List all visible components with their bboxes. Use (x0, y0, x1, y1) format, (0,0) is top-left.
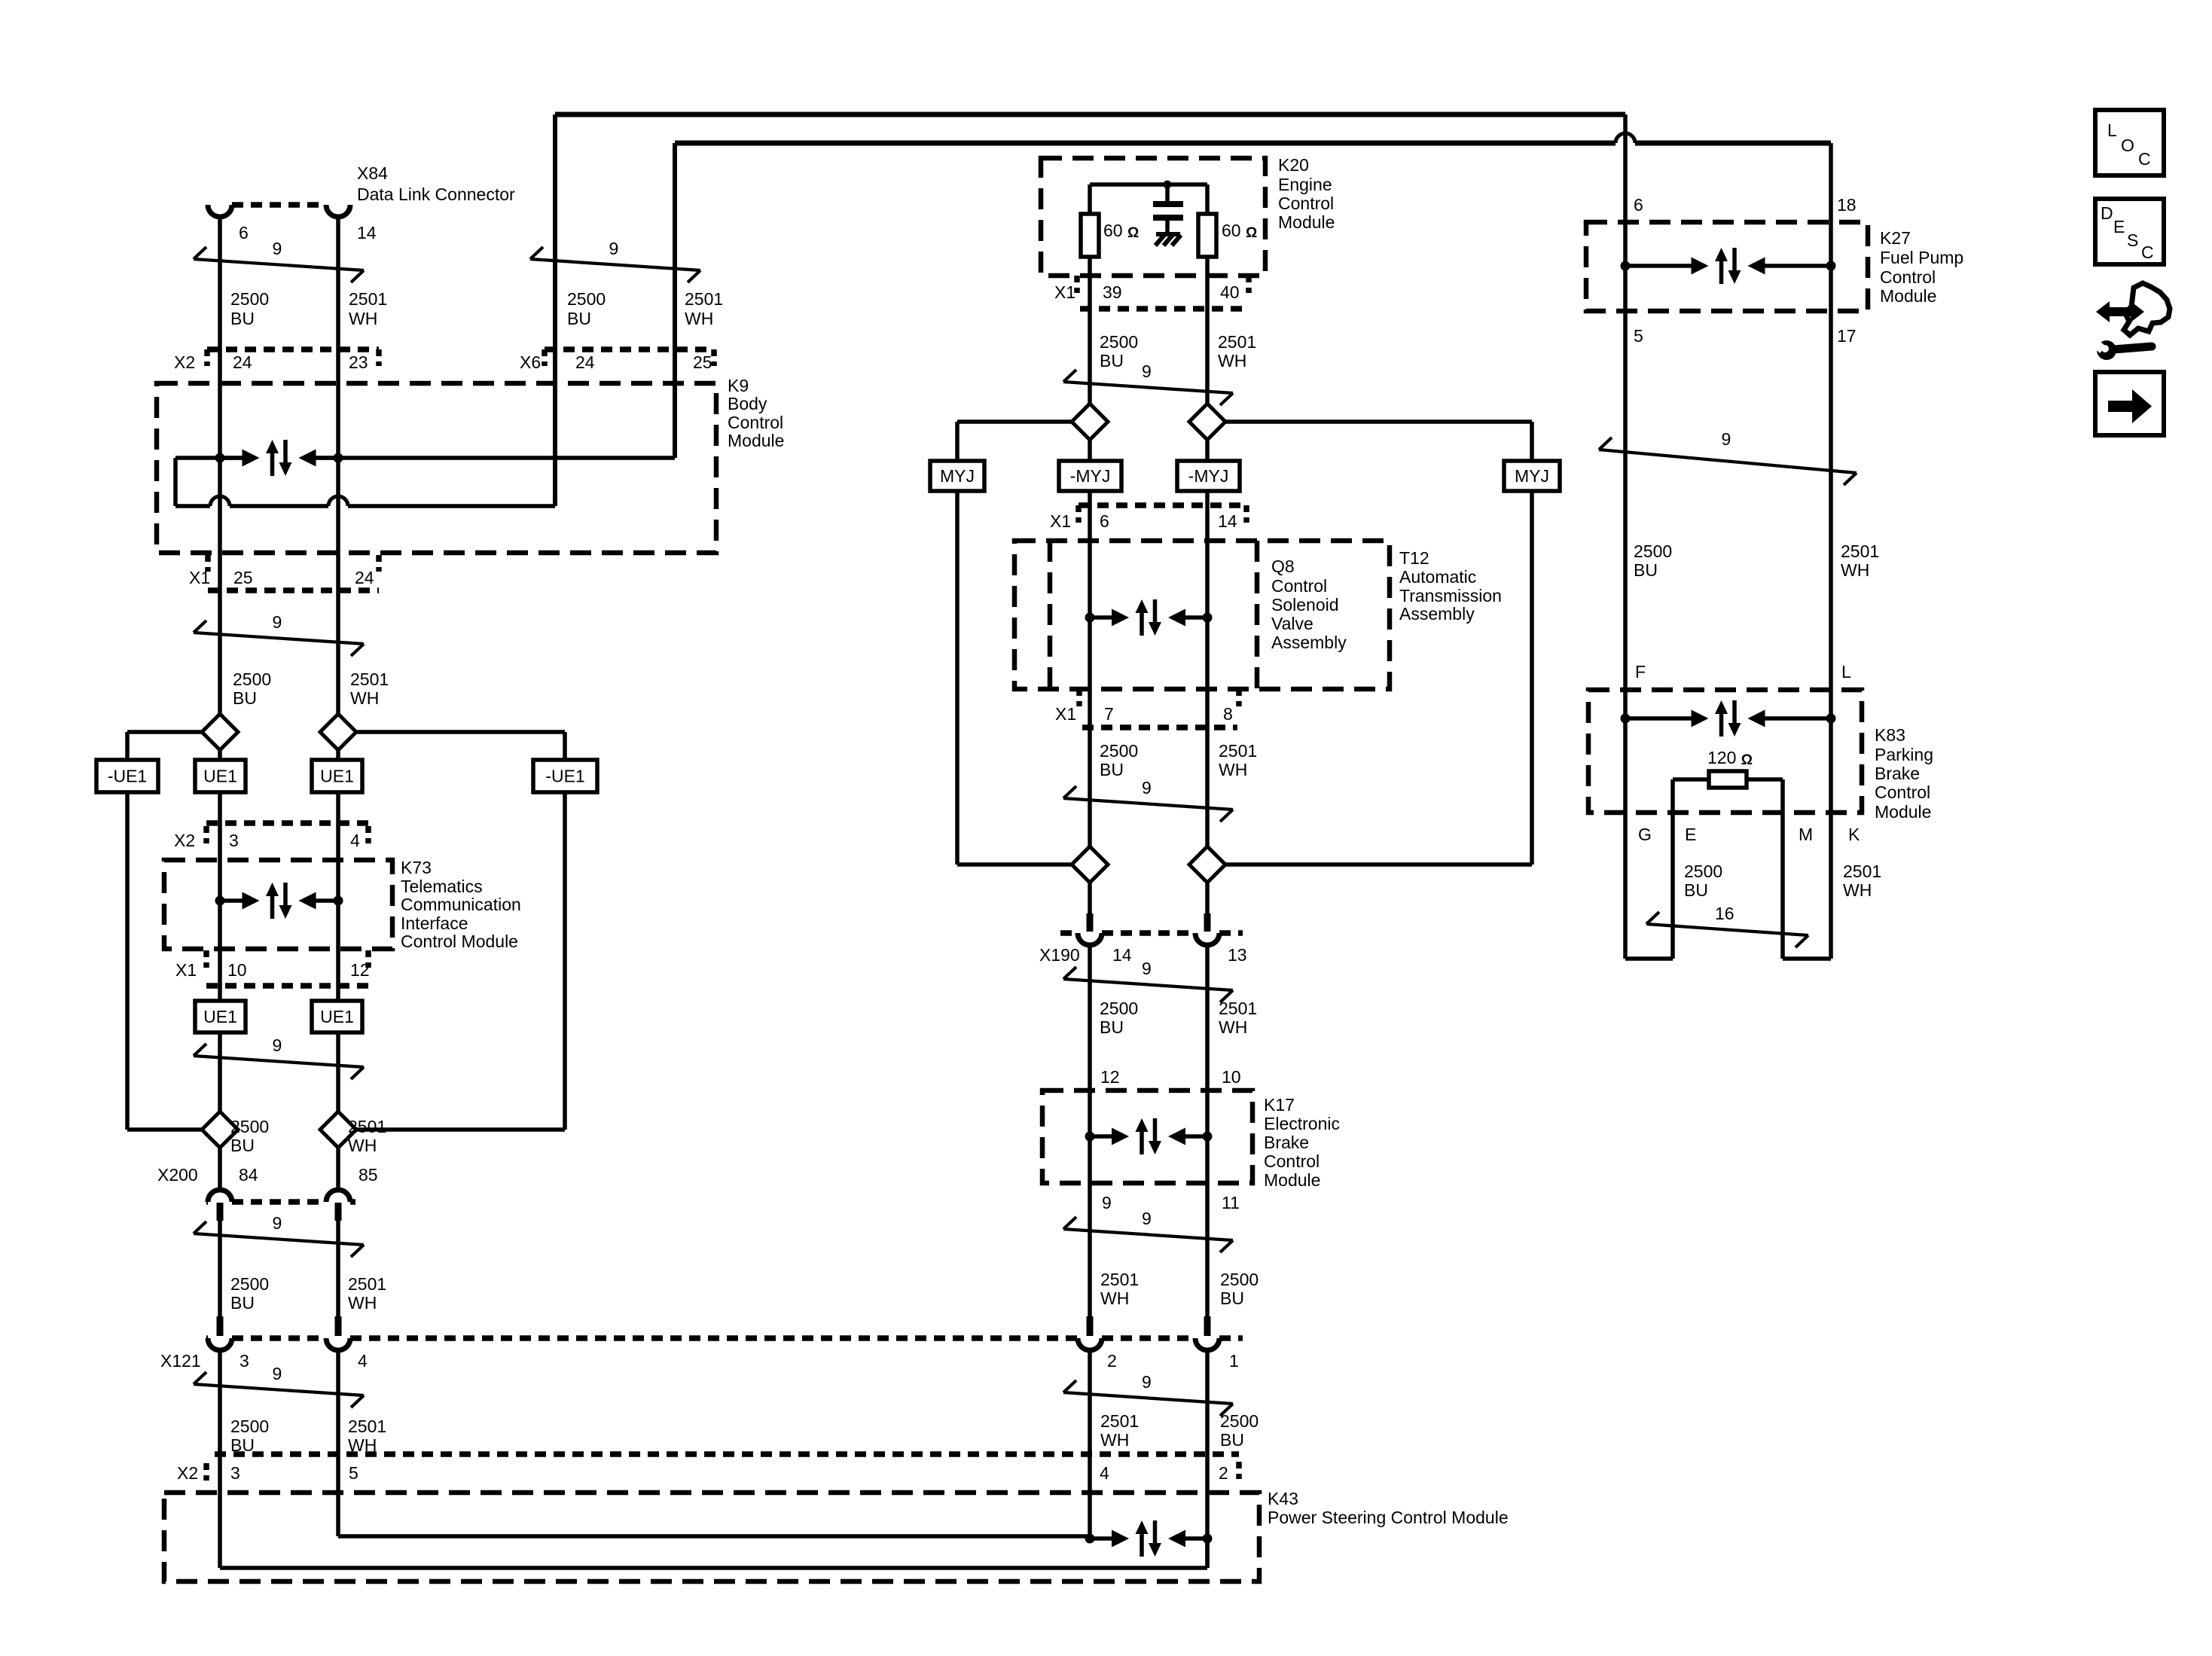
svg-text:X190: X190 (1039, 945, 1080, 965)
svg-text:Module: Module (1880, 286, 1936, 306)
svg-text:2501: 2501 (348, 1417, 386, 1436)
svg-text:4: 4 (350, 831, 360, 850)
svg-text:BU: BU (1100, 351, 1124, 371)
svg-text:WH: WH (1841, 560, 1869, 580)
svg-text:Q8: Q8 (1271, 557, 1295, 576)
svg-text:BU: BU (230, 1293, 255, 1313)
svg-text:X121: X121 (160, 1351, 201, 1371)
svg-text:Assembly: Assembly (1271, 633, 1347, 652)
svg-text:WH: WH (348, 1293, 377, 1313)
svg-text:2: 2 (1107, 1351, 1117, 1371)
svg-text:Control: Control (1264, 1151, 1320, 1171)
svg-text:9: 9 (1142, 1372, 1152, 1392)
svg-text:5: 5 (349, 1463, 358, 1483)
svg-text:Electronic: Electronic (1264, 1114, 1340, 1133)
svg-text:Valve: Valve (1271, 614, 1313, 633)
svg-text:24: 24 (233, 352, 252, 372)
svg-text:9: 9 (273, 612, 282, 632)
svg-text:X1: X1 (175, 960, 197, 980)
svg-text:9: 9 (1142, 1209, 1152, 1228)
svg-text:UE1: UE1 (203, 1007, 237, 1026)
svg-text:2501: 2501 (348, 1274, 386, 1294)
svg-text:BU: BU (1100, 1017, 1124, 1037)
svg-text:-UE1: -UE1 (545, 767, 584, 786)
svg-text:Body: Body (728, 394, 767, 413)
svg-text:O: O (2121, 136, 2134, 155)
svg-text:X2: X2 (177, 1463, 198, 1483)
svg-text:Interface: Interface (401, 913, 468, 933)
svg-text:2501: 2501 (1100, 1411, 1139, 1431)
svg-text:39: 39 (1103, 282, 1122, 302)
svg-text:UE1: UE1 (203, 767, 237, 786)
svg-text:40: 40 (1220, 282, 1240, 302)
svg-text:K20: K20 (1278, 155, 1309, 175)
svg-text:4: 4 (358, 1351, 368, 1371)
svg-text:10: 10 (1222, 1067, 1241, 1087)
svg-text:2501: 2501 (685, 289, 723, 309)
svg-text:Solenoid: Solenoid (1271, 595, 1339, 615)
svg-text:2500: 2500 (1100, 999, 1138, 1018)
svg-text:3: 3 (230, 1463, 240, 1483)
svg-text:84: 84 (239, 1165, 258, 1185)
svg-text:WH: WH (1219, 760, 1247, 779)
svg-text:2500: 2500 (230, 1274, 269, 1294)
svg-text:Power Steering Control Module: Power Steering Control Module (1268, 1508, 1509, 1527)
svg-text:16: 16 (1715, 904, 1735, 923)
svg-text:K73: K73 (401, 858, 432, 877)
svg-text:Control: Control (1875, 782, 1930, 802)
svg-text:D: D (2101, 203, 2113, 223)
svg-text:X1: X1 (1050, 511, 1071, 531)
svg-text:2501: 2501 (1843, 862, 1881, 881)
svg-text:WH: WH (685, 309, 713, 328)
svg-text:MYJ: MYJ (1515, 466, 1549, 486)
svg-text:2: 2 (1219, 1463, 1228, 1483)
svg-text:9: 9 (1102, 1193, 1112, 1212)
svg-text:Brake: Brake (1264, 1133, 1309, 1152)
svg-text:F: F (1635, 662, 1646, 682)
svg-text:9: 9 (1142, 778, 1152, 798)
svg-text:2501: 2501 (1841, 541, 1879, 561)
svg-text:9: 9 (1722, 429, 1731, 449)
svg-text:M: M (1799, 825, 1813, 844)
svg-text:24: 24 (575, 352, 595, 372)
svg-text:UE1: UE1 (320, 767, 354, 786)
svg-text:12: 12 (1100, 1067, 1120, 1087)
svg-text:WH: WH (348, 1136, 377, 1155)
svg-text:3: 3 (240, 1351, 249, 1371)
svg-text:Module: Module (1278, 212, 1335, 232)
svg-text:K9: K9 (728, 376, 749, 395)
svg-text:K83: K83 (1875, 725, 1905, 745)
svg-text:2500: 2500 (1100, 332, 1138, 352)
svg-text:X1: X1 (189, 568, 210, 587)
svg-text:K43: K43 (1268, 1489, 1298, 1508)
svg-text:14: 14 (357, 223, 377, 242)
svg-text:2501: 2501 (1219, 741, 1257, 761)
svg-text:6: 6 (1634, 195, 1643, 215)
svg-text:Control: Control (1880, 267, 1936, 287)
svg-text:-MYJ: -MYJ (1188, 466, 1229, 486)
svg-text:1: 1 (1229, 1351, 1239, 1371)
svg-text:2500: 2500 (1100, 741, 1138, 761)
svg-text:WH: WH (1843, 880, 1872, 900)
svg-text:5: 5 (1634, 326, 1643, 346)
svg-text:G: G (1638, 825, 1652, 844)
svg-text:2501: 2501 (1219, 999, 1257, 1018)
svg-text:Control: Control (1278, 194, 1334, 213)
svg-text:6: 6 (1100, 511, 1109, 531)
svg-text:Data Link Connector: Data Link Connector (357, 185, 515, 204)
svg-text:Module: Module (1264, 1170, 1320, 1190)
svg-text:7: 7 (1104, 704, 1114, 724)
svg-text:S: S (2127, 230, 2138, 250)
svg-text:Parking: Parking (1875, 745, 1933, 764)
svg-text:X6: X6 (520, 352, 541, 372)
svg-text:BU: BU (1684, 880, 1708, 900)
svg-text:2500: 2500 (567, 289, 606, 309)
svg-text:2501: 2501 (1218, 332, 1256, 352)
svg-text:2501: 2501 (348, 1117, 386, 1136)
svg-text:Fuel Pump: Fuel Pump (1880, 248, 1963, 267)
svg-text:UE1: UE1 (320, 1007, 354, 1026)
svg-text:-MYJ: -MYJ (1070, 466, 1111, 486)
svg-text:WH: WH (348, 1435, 377, 1455)
svg-text:K27: K27 (1880, 228, 1911, 248)
svg-text:2500: 2500 (230, 1117, 269, 1136)
svg-text:2500: 2500 (1220, 1270, 1259, 1289)
svg-text:X200: X200 (157, 1165, 198, 1185)
svg-text:BU: BU (1220, 1289, 1244, 1308)
svg-text:C: C (2141, 242, 2154, 262)
svg-text:9: 9 (273, 1213, 282, 1233)
svg-text:25: 25 (233, 568, 253, 587)
svg-text:BU: BU (1220, 1430, 1244, 1450)
svg-text:2500: 2500 (1684, 862, 1722, 881)
svg-text:8: 8 (1223, 704, 1233, 724)
svg-text:11: 11 (1222, 1193, 1240, 1212)
svg-text:WH: WH (1219, 1017, 1247, 1037)
svg-text:Control Module: Control Module (401, 932, 518, 951)
svg-text:WH: WH (350, 688, 379, 708)
svg-text:Telematics: Telematics (401, 877, 483, 896)
svg-text:2500: 2500 (1634, 541, 1672, 561)
svg-text:X2: X2 (174, 831, 195, 850)
svg-text:2500: 2500 (1220, 1411, 1259, 1431)
svg-text:2500: 2500 (230, 1417, 269, 1436)
svg-text:2501: 2501 (1100, 1270, 1139, 1289)
svg-text:E: E (2113, 217, 2125, 236)
svg-text:85: 85 (358, 1165, 378, 1185)
svg-text:WH: WH (1218, 351, 1246, 371)
svg-text:23: 23 (349, 352, 368, 372)
svg-text:9: 9 (609, 239, 619, 258)
svg-text:Communication: Communication (401, 895, 521, 914)
svg-text:BU: BU (230, 1136, 255, 1155)
svg-text:K17: K17 (1264, 1095, 1295, 1115)
svg-text:-UE1: -UE1 (108, 767, 147, 786)
svg-text:10: 10 (227, 960, 247, 980)
svg-text:X84: X84 (357, 163, 388, 183)
svg-text:13: 13 (1228, 945, 1247, 965)
svg-text:X1: X1 (1054, 282, 1075, 302)
svg-text:2501: 2501 (349, 289, 387, 309)
svg-text:4: 4 (1100, 1463, 1109, 1483)
svg-text:Assembly: Assembly (1399, 604, 1475, 624)
svg-text:L: L (2107, 120, 2117, 140)
svg-text:MYJ: MYJ (940, 466, 975, 486)
svg-text:9: 9 (273, 239, 282, 258)
svg-text:Transmission: Transmission (1399, 586, 1502, 605)
svg-text:BU: BU (1100, 760, 1124, 779)
svg-text:C: C (2138, 149, 2151, 169)
svg-text:BU: BU (230, 309, 255, 328)
svg-text:14: 14 (1218, 511, 1237, 531)
svg-text:WH: WH (349, 309, 377, 328)
svg-text:2500: 2500 (233, 669, 271, 689)
svg-text:18: 18 (1837, 195, 1857, 215)
svg-text:L: L (1841, 662, 1851, 682)
svg-text:Module: Module (1875, 802, 1931, 822)
svg-text:BU: BU (230, 1435, 255, 1455)
svg-text:9: 9 (1142, 361, 1152, 381)
svg-text:12: 12 (350, 960, 370, 980)
svg-text:3: 3 (229, 831, 239, 850)
svg-text:Engine: Engine (1278, 175, 1332, 194)
svg-text:Module: Module (728, 431, 784, 450)
svg-text:BU: BU (1634, 560, 1658, 580)
svg-text:9: 9 (1142, 959, 1152, 978)
svg-text:T12: T12 (1399, 548, 1429, 568)
svg-text:Control: Control (728, 413, 783, 432)
svg-text:2501: 2501 (350, 669, 389, 689)
svg-text:14: 14 (1112, 945, 1132, 965)
svg-text:BU: BU (233, 688, 257, 708)
svg-text:Control: Control (1271, 576, 1327, 596)
svg-text:9: 9 (273, 1035, 282, 1055)
svg-text:17: 17 (1837, 326, 1857, 346)
svg-text:Automatic: Automatic (1399, 567, 1476, 587)
svg-text:K: K (1848, 825, 1860, 844)
svg-text:WH: WH (1100, 1430, 1129, 1450)
svg-text:Brake: Brake (1875, 764, 1920, 783)
svg-text:2500: 2500 (230, 289, 269, 309)
svg-text:24: 24 (355, 568, 374, 587)
svg-text:X2: X2 (174, 352, 195, 372)
svg-text:9: 9 (273, 1364, 282, 1383)
svg-text:BU: BU (567, 309, 591, 328)
svg-text:6: 6 (239, 223, 249, 242)
svg-text:X1: X1 (1055, 704, 1076, 724)
svg-text:E: E (1685, 825, 1696, 844)
svg-text:WH: WH (1100, 1289, 1129, 1308)
svg-text:25: 25 (693, 352, 712, 372)
